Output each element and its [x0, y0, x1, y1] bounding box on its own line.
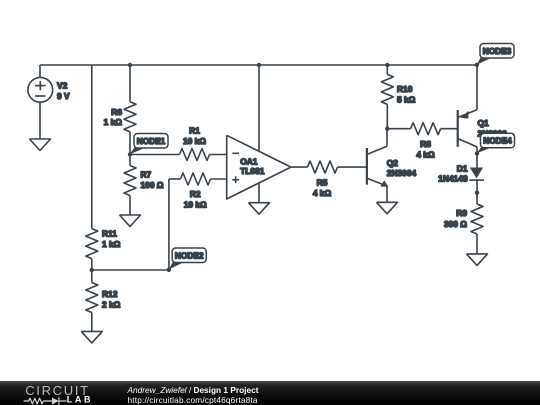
svg-text:R10: R10 — [397, 84, 413, 94]
svg-text:1 kΩ: 1 kΩ — [102, 239, 121, 249]
svg-text:D1: D1 — [457, 164, 468, 174]
svg-text:1 kΩ: 1 kΩ — [104, 117, 123, 127]
svg-text:2N3904: 2N3904 — [387, 168, 417, 178]
svg-text:V2: V2 — [57, 80, 68, 90]
svg-text:10 kΩ: 10 kΩ — [183, 136, 206, 146]
svg-text:NODE4: NODE4 — [483, 136, 512, 146]
svg-text:10 kΩ: 10 kΩ — [184, 200, 207, 210]
svg-text:R7: R7 — [141, 170, 152, 180]
svg-text:4 kΩ: 4 kΩ — [313, 188, 332, 198]
svg-text:OA1: OA1 — [240, 156, 258, 166]
svg-text:300 Ω: 300 Ω — [444, 219, 467, 229]
svg-text:4 kΩ: 4 kΩ — [416, 149, 435, 159]
svg-text:9 V: 9 V — [57, 91, 70, 101]
svg-text:R9: R9 — [456, 208, 467, 218]
svg-text:NODE1: NODE1 — [137, 136, 166, 146]
svg-text:LAB: LAB — [67, 395, 93, 405]
svg-text:R12: R12 — [102, 289, 118, 299]
svg-text:R8: R8 — [420, 139, 431, 149]
svg-text:NODE2: NODE2 — [175, 250, 204, 260]
svg-text:R11: R11 — [102, 229, 117, 239]
svg-text:R1: R1 — [189, 126, 200, 136]
svg-text:5 kΩ: 5 kΩ — [397, 94, 416, 104]
svg-text:2 kΩ: 2 kΩ — [102, 299, 121, 309]
svg-text:R2: R2 — [190, 189, 201, 199]
svg-text:R5: R5 — [317, 177, 328, 187]
svg-text:1N4148: 1N4148 — [438, 173, 468, 183]
svg-text:Q2: Q2 — [387, 158, 399, 168]
svg-text:Q1: Q1 — [478, 118, 490, 128]
svg-text:R6: R6 — [111, 107, 122, 117]
svg-text:NODE3: NODE3 — [483, 46, 512, 56]
svg-text:TL081: TL081 — [240, 166, 265, 176]
svg-text:100 Ω: 100 Ω — [141, 180, 164, 190]
